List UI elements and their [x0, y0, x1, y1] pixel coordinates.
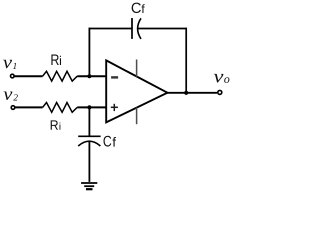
capacitor Cf (feedback): curved plate	[138, 18, 141, 39]
label Cf (feedback)	[132, 3, 145, 13]
label v1	[3, 60, 16, 69]
op-amp noninverting input plus sign	[111, 104, 118, 111]
feedback wire right vertical	[185, 28, 187, 94]
input terminal v1	[11, 74, 15, 78]
output terminal v0	[218, 90, 222, 94]
label v2	[4, 92, 18, 101]
power pin top	[136, 60, 138, 77]
label v0	[214, 74, 230, 83]
label Cf (bottom)	[104, 136, 117, 147]
op-amp U1 triangle	[106, 60, 167, 122]
junction node B (noninverting input)	[87, 105, 91, 109]
wire resistor Ri to op-amp inverting input	[77, 75, 106, 77]
feedback top wire right segment	[138, 28, 187, 30]
wire resistor Ri to op-amp noninverting input	[77, 106, 106, 108]
op-amp inverting input minus sign	[111, 76, 118, 78]
wire v1 terminal to resistor Ri	[14, 75, 42, 77]
resistor Ri (bottom)	[43, 103, 78, 113]
output wire	[167, 92, 217, 94]
label Ri (bottom)	[51, 120, 61, 129]
input terminal v2	[11, 106, 15, 110]
junction node output	[184, 91, 188, 95]
feedback top wire left segment	[89, 28, 133, 30]
power pin bottom	[136, 108, 138, 125]
feedback wire left vertical	[88, 28, 90, 77]
capacitor Cf (feedback): straight plate	[131, 18, 133, 39]
wire v2 terminal to resistor Ri	[15, 106, 42, 108]
resistor Ri (top)	[43, 71, 78, 81]
junction node A (inverting input)	[87, 74, 91, 78]
label Ri (top)	[51, 55, 61, 66]
wire junction B down to capacitor Cf (bottom)	[88, 107, 90, 136]
ground	[81, 183, 97, 189]
wire capacitor Cf to ground	[88, 141, 90, 182]
capacitor Cf (bottom): curved plate	[78, 141, 100, 146]
capacitor Cf (bottom): straight plate	[78, 135, 100, 137]
